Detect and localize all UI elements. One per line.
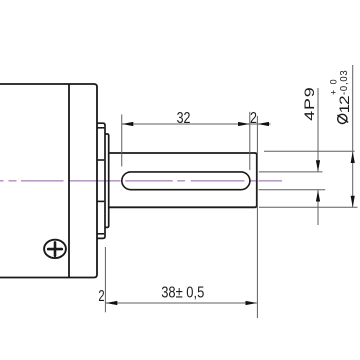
arrow dia12 up bbox=[351, 152, 355, 164]
arrow 32 left bbox=[122, 122, 134, 126]
arrow 4P9 down bbox=[316, 160, 320, 172]
front flange disc bbox=[97, 123, 105, 238]
svg-text:+ 0: + 0 bbox=[328, 78, 338, 95]
ext line keyway bottom bbox=[259, 189, 326, 191]
extension and dimension lines (thin) bbox=[105, 65, 357, 318]
ext line flange face bbox=[104, 247, 106, 312]
flange step line upper bbox=[97, 127, 104, 129]
arrow 38 left bbox=[106, 301, 118, 305]
ext line keyway top bbox=[259, 171, 323, 173]
bearing bore edge upper bbox=[97, 159, 104, 161]
svg-text:32: 32 bbox=[177, 109, 191, 127]
motor body outline bbox=[0, 84, 97, 278]
svg-text:2: 2 bbox=[98, 286, 104, 305]
dim line 32 and 2 (top) bbox=[122, 123, 271, 125]
centerline (shaft axis, purple dashed) bbox=[0, 180, 282, 182]
svg-text:12: 12 bbox=[337, 96, 352, 113]
ext line keyway left bbox=[121, 114, 123, 166]
bearing bore edge lower bbox=[97, 200, 104, 202]
diameter symbol bbox=[337, 114, 348, 123]
ext line shaft end bbox=[256, 116, 258, 318]
flange step line lower bbox=[97, 233, 104, 235]
arrow 2 outside bbox=[258, 122, 270, 126]
arrowheads bbox=[106, 122, 355, 305]
ext line shaft top bbox=[264, 150, 355, 152]
svg-text:38± 0,5: 38± 0,5 bbox=[161, 284, 204, 301]
svg-text:4P9: 4P9 bbox=[302, 87, 318, 121]
shaft bbox=[109, 153, 257, 207]
svg-text:2: 2 bbox=[250, 109, 257, 127]
arrow 38 right bbox=[246, 301, 258, 305]
arrow 32 right bbox=[238, 122, 250, 126]
dim line 38 (bottom) bbox=[106, 302, 257, 304]
svg-text:-0,03: -0,03 bbox=[339, 70, 350, 95]
screw head bbox=[44, 240, 66, 258]
arrow dia12 down bbox=[351, 196, 355, 208]
dim line dia 12 bbox=[352, 65, 354, 207]
dim line 4P9 lower bbox=[317, 190, 319, 225]
arrow 4P9 up bbox=[316, 190, 320, 202]
dim line 4P9 upper bbox=[317, 88, 319, 171]
ext line keyway right bbox=[249, 112, 251, 170]
keyway slot bbox=[122, 172, 250, 190]
ext line shaft bottom bbox=[259, 206, 358, 208]
body joint line bbox=[68, 84, 70, 278]
pilot boss bbox=[105, 134, 109, 227]
